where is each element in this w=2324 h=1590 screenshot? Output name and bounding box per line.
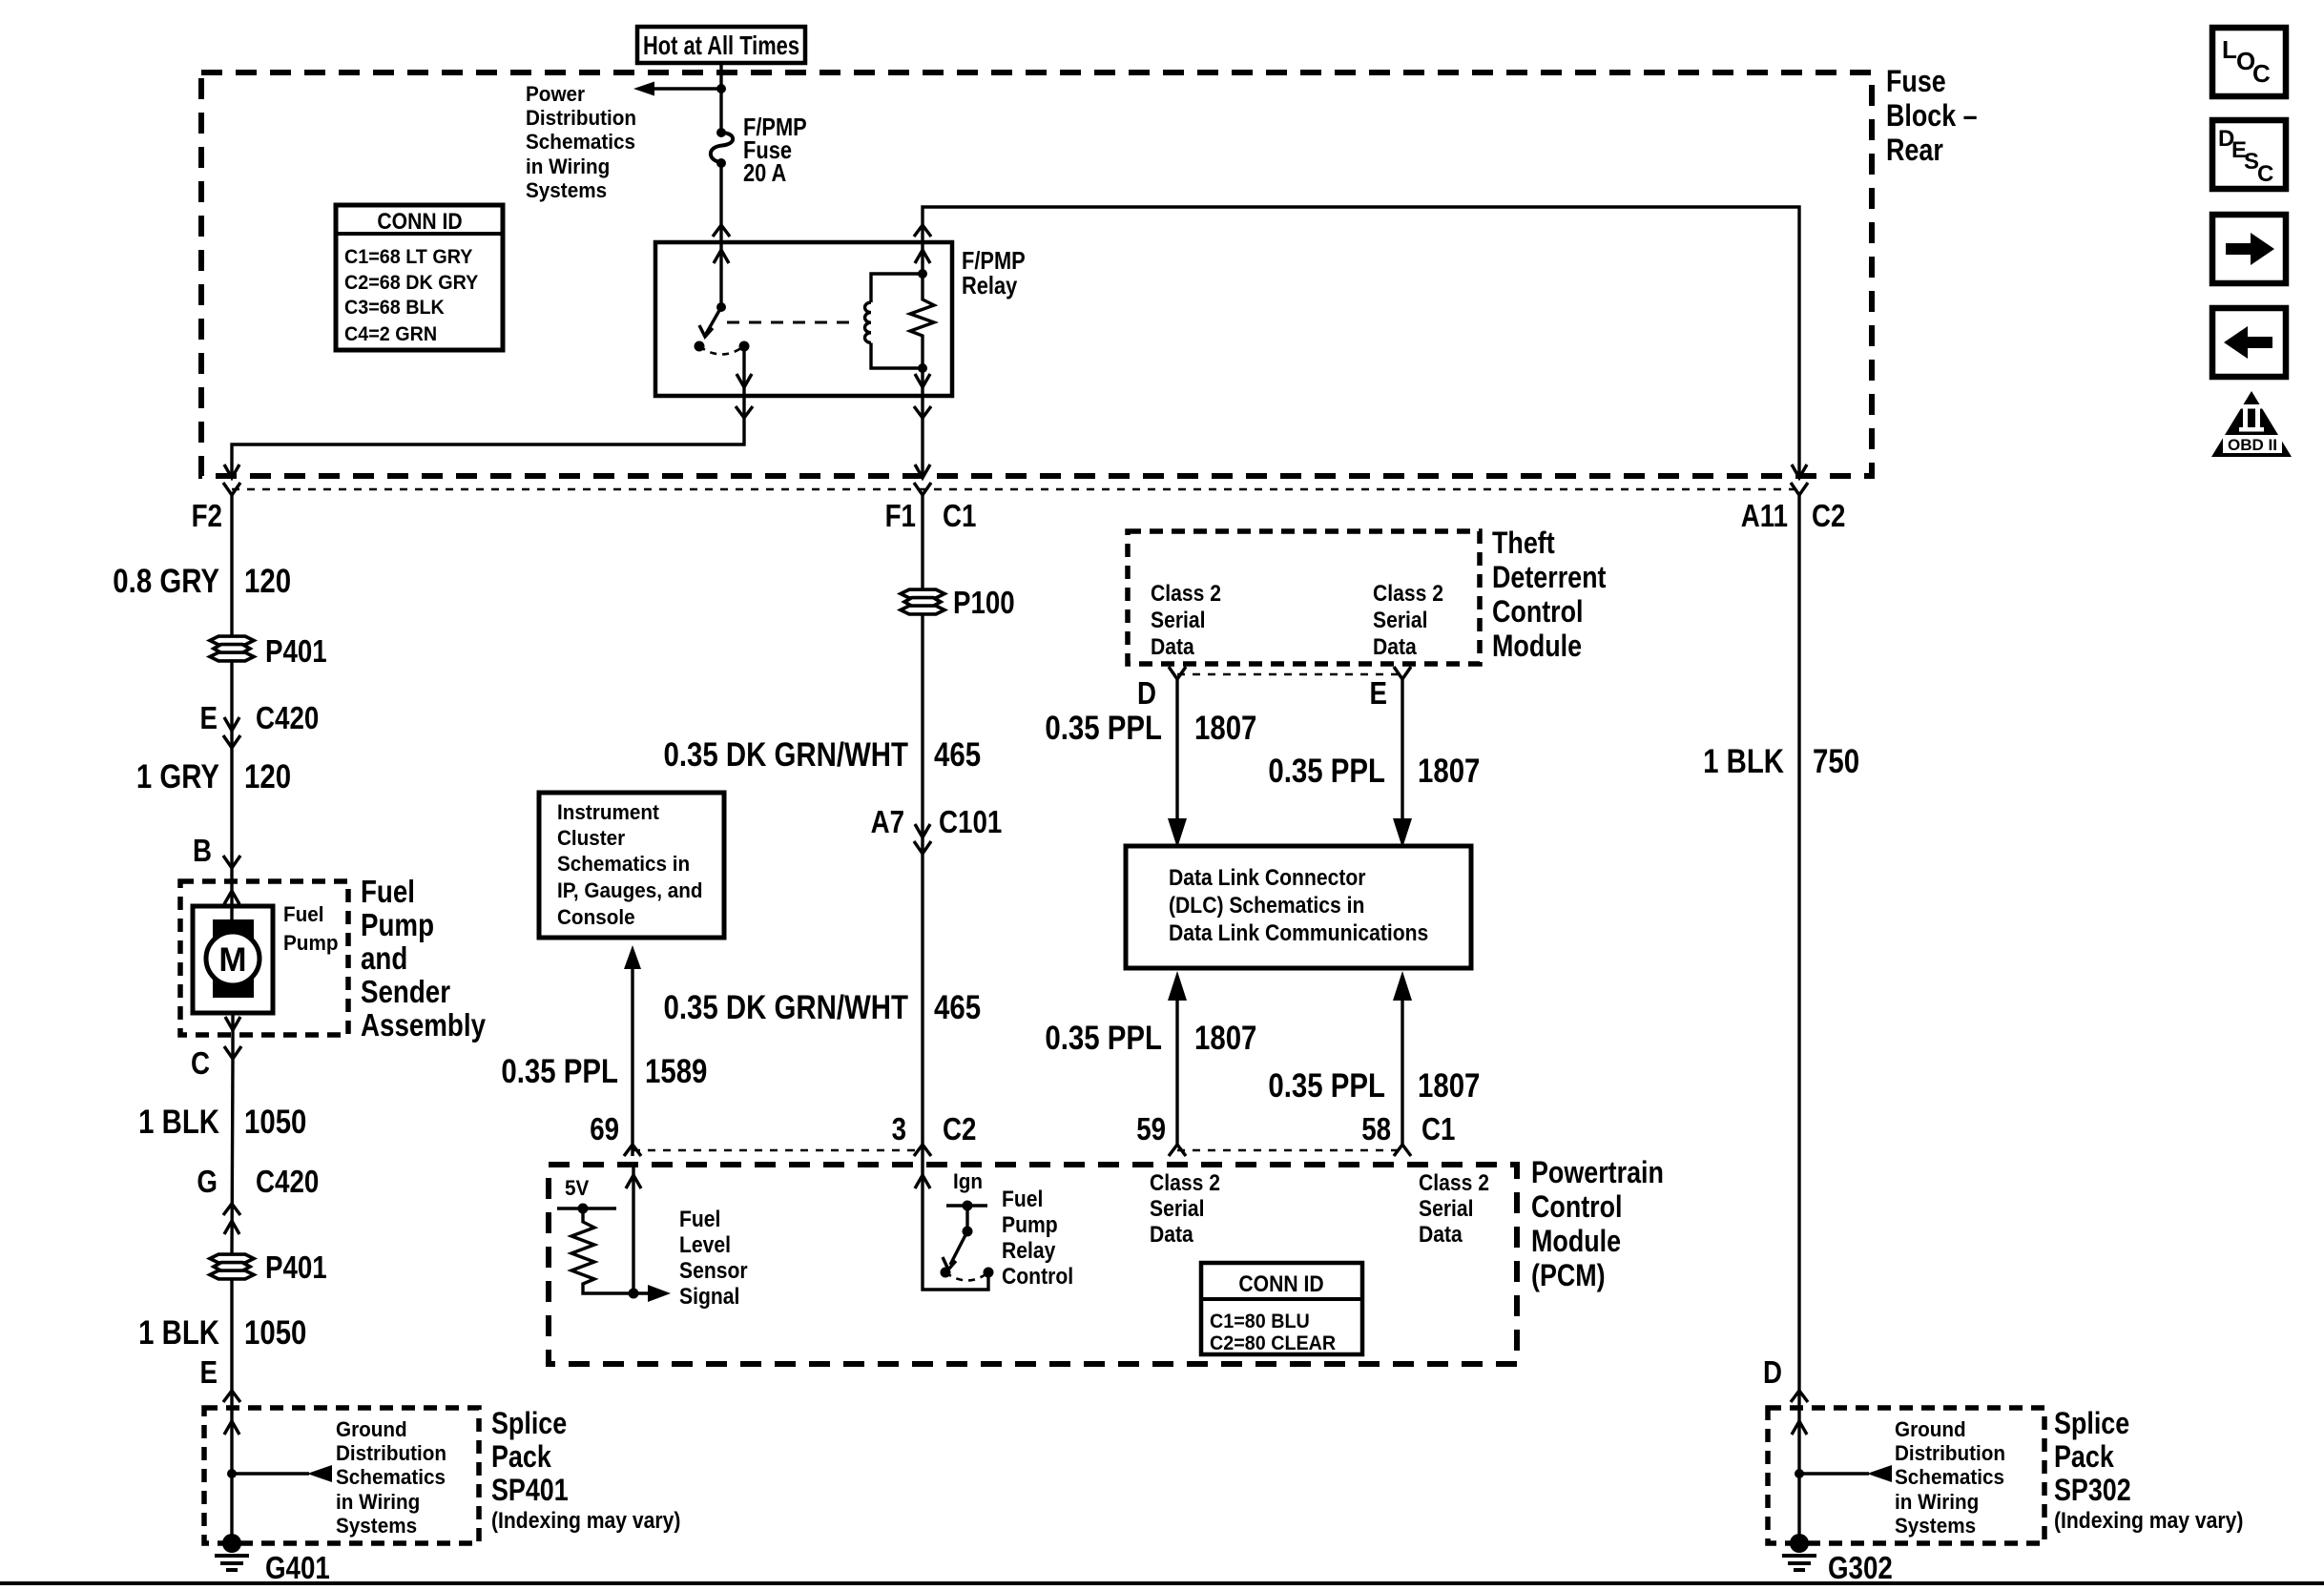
wire A11 to SP302	[1797, 495, 1800, 1408]
svg-text:Ground: Ground	[336, 1417, 407, 1441]
relay switch blade	[699, 307, 721, 337]
svg-text:1807: 1807	[1194, 1020, 1256, 1057]
svg-text:C4=2 GRN: C4=2 GRN	[344, 323, 437, 345]
connector chevron pin 3 C2	[914, 1145, 931, 1156]
label Fuse Block - Rear	[1886, 64, 1978, 167]
svg-text:Schematics: Schematics	[336, 1465, 446, 1489]
svg-text:58: 58	[1361, 1111, 1391, 1146]
svg-text:750: 750	[1813, 743, 1859, 780]
svg-text:Fuel: Fuel	[361, 874, 415, 909]
svg-text:1589: 1589	[645, 1053, 707, 1090]
arrow up into DLC left	[1168, 971, 1187, 1001]
svg-text:P100: P100	[953, 585, 1015, 620]
svg-text:Data Link Connector: Data Link Connector	[1169, 865, 1366, 891]
arrow up into instrument cluster	[624, 945, 641, 969]
svg-text:Sender: Sender	[361, 974, 450, 1009]
svg-text:C1=80 BLU: C1=80 BLU	[1210, 1311, 1310, 1332]
svg-text:C420: C420	[256, 700, 319, 735]
wire pin D to DLC	[1175, 679, 1178, 820]
fuel pump exit arrow down	[225, 1017, 240, 1030]
svg-text:(DLC) Schematics in: (DLC) Schematics in	[1169, 893, 1364, 919]
PCM ign feed	[946, 1169, 987, 1237]
connector chevron pin 69	[624, 1145, 641, 1156]
label Class 2 Serial Data PCM pin 58	[1419, 1170, 1489, 1248]
svg-text:465: 465	[934, 989, 981, 1026]
pin 3 arrow up inside PCM	[915, 1175, 930, 1188]
svg-text:1 BLK: 1 BLK	[138, 1314, 219, 1352]
arrow down at fuse block exit F2	[224, 465, 239, 478]
svg-text:Class 2: Class 2	[1373, 581, 1443, 607]
svg-text:1807: 1807	[1418, 1067, 1480, 1105]
relay switch dashed arc	[699, 346, 744, 355]
svg-text:0.35 PPL: 0.35 PPL	[1268, 1067, 1385, 1105]
ground G401	[215, 1534, 249, 1570]
svg-text:1050: 1050	[244, 1314, 306, 1352]
connector chevron E splice	[223, 1391, 240, 1402]
connector chevron pin D	[1169, 667, 1186, 679]
svg-text:Data: Data	[1419, 1222, 1463, 1248]
svg-text:A11: A11	[1741, 498, 1788, 533]
PCM relay control switch blade	[943, 1231, 967, 1270]
svg-text:Data: Data	[1151, 634, 1194, 660]
icon forward arrow	[2212, 215, 2286, 283]
PCM dashed box	[549, 1165, 1517, 1364]
PCM switch contact right	[984, 1268, 994, 1278]
wire P401 to splice pack	[230, 1280, 233, 1408]
svg-text:C: C	[191, 1045, 210, 1081]
svg-text:Level: Level	[679, 1232, 731, 1258]
svg-text:Distribution: Distribution	[336, 1441, 446, 1465]
node SP401 splice junction	[227, 1469, 237, 1478]
svg-text:120: 120	[244, 758, 291, 795]
node relay coil top junction	[918, 269, 927, 279]
connector chevron F2	[223, 483, 240, 495]
PCM switch dashed arc	[945, 1272, 988, 1281]
PCM switch contact left	[941, 1268, 951, 1278]
svg-text:Schematics: Schematics	[1895, 1465, 2004, 1489]
arrow down into DLC left	[1168, 818, 1187, 848]
svg-text:Data Link Communications: Data Link Communications	[1169, 920, 1428, 946]
svg-text:69: 69	[590, 1111, 619, 1146]
wire P100 to A7 C101	[921, 615, 923, 854]
svg-text:5V: 5V	[565, 1176, 590, 1200]
label Ground Distribution Schematics in Wiring Systems SP401	[336, 1417, 446, 1538]
node power feed junction	[716, 84, 726, 93]
fuel pump motor M1	[193, 906, 273, 1013]
svg-text:Module: Module	[1531, 1224, 1621, 1258]
svg-text:Fuse: Fuse	[1886, 64, 1946, 98]
svg-text:1 BLK: 1 BLK	[138, 1104, 219, 1141]
svg-text:G302: G302	[1828, 1550, 1893, 1585]
svg-text:120: 120	[244, 563, 291, 600]
connector chevron A11 C2	[1791, 483, 1808, 495]
svg-text:Systems: Systems	[1895, 1514, 1976, 1538]
wire relay pin 86 up and across to A11	[923, 207, 1799, 476]
svg-text:C2=80 CLEAR: C2=80 CLEAR	[1210, 1332, 1336, 1354]
svg-text:Schematics in: Schematics in	[557, 852, 690, 876]
svg-text:C420: C420	[256, 1164, 319, 1199]
connector chevron pin 58	[1394, 1145, 1411, 1156]
svg-text:in Wiring: in Wiring	[526, 155, 610, 178]
relay F/PMP Relay box	[655, 242, 952, 396]
wire relay pin 87 down to F1	[921, 368, 923, 476]
connector chevron C	[224, 1046, 241, 1059]
wire pin 59 to DLC	[1175, 1000, 1178, 1145]
svg-text:Class 2: Class 2	[1419, 1170, 1489, 1196]
wire pin 58 to DLC	[1401, 1000, 1403, 1145]
connector chevron F1 C1	[914, 483, 931, 495]
svg-text:Fuel: Fuel	[283, 902, 324, 926]
svg-text:F1: F1	[885, 498, 916, 533]
svg-text:Serial: Serial	[1419, 1196, 1474, 1222]
wire fuse to relay pin	[719, 163, 722, 307]
connector C101 pin A7 arrow	[915, 824, 930, 837]
label Splice Pack SP302	[2054, 1406, 2243, 1534]
svg-text:1807: 1807	[1418, 753, 1480, 790]
arrow down at fuse block exit F1	[915, 465, 930, 478]
svg-text:Rear: Rear	[1886, 133, 1943, 167]
svg-text:0.35 DK GRN/WHT: 0.35 DK GRN/WHT	[664, 736, 909, 774]
svg-text:E: E	[200, 1354, 218, 1390]
svg-text:Instrument: Instrument	[557, 800, 660, 824]
label Class 2 Serial Data theft pin E	[1373, 581, 1443, 660]
svg-text:Control: Control	[1002, 1264, 1073, 1290]
svg-text:B: B	[193, 833, 212, 868]
CONN ID table PCM	[1201, 1263, 1362, 1354]
icon OBD II	[2211, 391, 2292, 457]
svg-text:Power: Power	[526, 82, 586, 106]
node relay coil bottom junction	[918, 363, 927, 373]
arrow up into DLC right	[1393, 971, 1412, 1001]
svg-text:C3=68 BLK: C3=68 BLK	[344, 297, 445, 319]
label Class 2 Serial Data theft pin D	[1151, 581, 1221, 660]
svg-text:Distribution: Distribution	[1895, 1441, 2005, 1465]
PCM 5V supply	[557, 1176, 616, 1214]
instrument cluster reference box	[539, 793, 724, 938]
connector chevron relay pin 87	[914, 406, 931, 418]
SP302 reference arrow	[1799, 1465, 1892, 1482]
ground G302	[1782, 1534, 1816, 1570]
svg-text:Data: Data	[1373, 634, 1417, 660]
wire into SP401 ground	[230, 1408, 233, 1543]
svg-text:Systems: Systems	[526, 178, 607, 202]
svg-text:0.35 PPL: 0.35 PPL	[1045, 1020, 1162, 1057]
connector C420 pin E chevron	[223, 735, 240, 748]
ground distribution SP302 dashed box	[1768, 1408, 2044, 1543]
wire pin E to DLC	[1401, 679, 1403, 820]
svg-text:Class 2: Class 2	[1151, 581, 1221, 607]
svg-text:C1: C1	[943, 498, 976, 533]
svg-text:Pump: Pump	[1002, 1212, 1058, 1238]
label Ground Distribution Schematics in Wiring Systems SP302	[1895, 1417, 2005, 1538]
pin 69 arrow up inside PCM	[626, 1175, 641, 1188]
svg-text:C1=68 LT GRY: C1=68 LT GRY	[344, 246, 472, 268]
fuel pump and sender assembly dashed box	[180, 881, 348, 1035]
relay switch pivot	[716, 302, 726, 312]
data link connector reference box	[1126, 846, 1471, 968]
svg-text:Serial: Serial	[1151, 608, 1206, 633]
relay switch contact output	[739, 341, 750, 352]
svg-text:G401: G401	[265, 1550, 330, 1585]
icon DESC	[2212, 120, 2286, 189]
connector C101 pin A7 chevron	[914, 841, 931, 854]
connector dashed line pins 59-58	[1177, 1149, 1402, 1152]
svg-text:Pack: Pack	[491, 1439, 551, 1474]
label F/PMP Relay	[962, 246, 1026, 299]
icon back arrow	[2212, 308, 2286, 377]
svg-text:3: 3	[892, 1111, 906, 1146]
svg-text:C: C	[2252, 59, 2271, 88]
connector chevron D splice	[1791, 1391, 1808, 1402]
connector C420 pin G chevron	[223, 1204, 240, 1215]
svg-text:C: C	[2257, 161, 2273, 187]
arrow down into DLC right	[1393, 818, 1412, 848]
relay pin 30 arrow up	[714, 250, 729, 263]
wire C to P401 lower	[232, 1059, 233, 1255]
connector chevron relay switch output	[736, 406, 753, 418]
svg-text:(Indexing may vary): (Indexing may vary)	[2054, 1508, 2243, 1534]
svg-text:A7: A7	[871, 804, 904, 839]
wire hot feed down from Hot at All Times	[719, 63, 722, 134]
svg-text:and: and	[361, 940, 407, 976]
node SP302 splice junction	[1795, 1469, 1804, 1478]
fuel pump entry arrow up	[224, 891, 239, 904]
svg-text:Signal: Signal	[679, 1284, 739, 1310]
relay coil	[865, 274, 923, 368]
CONN ID table fuse block	[336, 205, 503, 350]
svg-text:D: D	[1137, 675, 1156, 711]
svg-text:Module: Module	[1492, 629, 1582, 663]
svg-text:Theft: Theft	[1492, 526, 1555, 560]
label Fuel Pump	[283, 902, 339, 955]
connector chevron pin 59	[1169, 1145, 1186, 1156]
wire B into fuel pump motor	[230, 868, 233, 919]
relay switch contact open	[695, 341, 705, 352]
relay resistor	[910, 274, 934, 368]
svg-text:1 GRY: 1 GRY	[136, 758, 219, 795]
wire pin 69 inside PCM	[632, 1165, 634, 1293]
label Splice Pack SP401	[491, 1406, 680, 1534]
fuel level signal arrow right	[648, 1285, 671, 1302]
svg-text:E: E	[1370, 675, 1388, 711]
svg-text:Splice: Splice	[2054, 1406, 2129, 1440]
svg-text:Class 2: Class 2	[1150, 1170, 1220, 1196]
svg-text:1807: 1807	[1194, 710, 1256, 747]
svg-text:CONN ID: CONN ID	[377, 209, 462, 235]
wire relay switch output to F2	[232, 346, 744, 476]
connector P401 lower	[210, 1254, 254, 1279]
svg-text:Serial: Serial	[1373, 608, 1428, 633]
relay pin 87 arrow down	[915, 374, 930, 387]
icon LOC	[2212, 28, 2286, 96]
svg-text:Relay: Relay	[1002, 1238, 1056, 1264]
svg-text:Console: Console	[557, 905, 635, 929]
svg-text:20 A: 20 A	[743, 158, 786, 187]
svg-text:Hot at All Times: Hot at All Times	[643, 31, 799, 60]
PCM pull-up resistor	[571, 1208, 656, 1293]
svg-text:(Indexing may vary): (Indexing may vary)	[491, 1508, 680, 1534]
svg-text:59: 59	[1136, 1111, 1166, 1146]
arrow down at fuse block exit A11	[1792, 465, 1807, 478]
Hot at All Times box	[637, 27, 805, 63]
svg-text:Relay: Relay	[962, 271, 1018, 299]
svg-text:L: L	[2222, 35, 2237, 64]
svg-text:P401: P401	[265, 1249, 327, 1285]
connector chevron pin E	[1394, 667, 1411, 679]
wire relay control to pin 3	[923, 1165, 988, 1290]
svg-text:C1: C1	[1421, 1111, 1455, 1146]
label Class 2 Serial Data PCM pin 59	[1150, 1170, 1220, 1248]
wire F2 to P401	[230, 495, 233, 636]
svg-text:Cluster: Cluster	[557, 826, 626, 850]
svg-text:C2: C2	[1812, 498, 1845, 533]
SP302 entry arrow up	[1792, 1421, 1807, 1435]
svg-text:Control: Control	[1492, 594, 1584, 629]
svg-text:Fuel: Fuel	[679, 1207, 720, 1232]
svg-text:Deterrent: Deterrent	[1492, 560, 1607, 594]
SP401 entry arrow up	[224, 1421, 239, 1435]
svg-text:Ign: Ign	[953, 1169, 983, 1193]
svg-text:0.35 PPL: 0.35 PPL	[1268, 753, 1385, 790]
label F/PMP Fuse 20 A	[743, 113, 807, 187]
svg-text:in Wiring: in Wiring	[336, 1490, 420, 1514]
connector chevron relay pin 30	[713, 225, 730, 237]
svg-text:E: E	[200, 700, 218, 735]
svg-text:OBD II: OBD II	[2228, 436, 2277, 454]
fuse F/PMP Fuse 20 A	[711, 128, 733, 168]
wire P401 to fuel pump B	[230, 662, 233, 868]
label Theft Deterrent Control Module	[1492, 526, 1607, 663]
relay switch output arrow down	[737, 374, 752, 387]
connector C420 pin E arrow	[224, 717, 239, 731]
relay control dashed link	[727, 321, 859, 324]
SP401 reference arrow	[232, 1465, 332, 1482]
svg-text:Pack: Pack	[2054, 1439, 2114, 1474]
svg-text:C2: C2	[943, 1111, 976, 1146]
connector dashed line (F2 / F1 C1 / A11 C2)	[232, 488, 1799, 491]
svg-text:Fuel: Fuel	[1002, 1187, 1043, 1212]
connector chevron B	[223, 856, 240, 868]
svg-text:C101: C101	[939, 804, 1002, 839]
svg-text:C2=68 DK GRY: C2=68 DK GRY	[344, 272, 478, 294]
connector dashed line pins D-E	[1177, 673, 1402, 676]
connector C420 pin G arrow	[224, 1221, 239, 1234]
theft deterrent control module dashed box	[1128, 531, 1480, 664]
wire motor to C	[231, 1013, 234, 1059]
svg-text:Block –: Block –	[1886, 98, 1978, 133]
svg-text:1 BLK: 1 BLK	[1703, 743, 1784, 780]
svg-text:Powertrain: Powertrain	[1531, 1155, 1664, 1189]
wire C101 to PCM pin 3	[921, 854, 923, 1165]
connector chevron relay pin 86	[914, 225, 931, 237]
label Powertrain Control Module (PCM)	[1531, 1155, 1664, 1292]
connector P401 upper	[210, 636, 254, 661]
svg-text:IP, Gauges, and: IP, Gauges, and	[557, 878, 703, 902]
svg-text:0.35 DK GRN/WHT: 0.35 DK GRN/WHT	[664, 989, 909, 1026]
svg-text:Distribution: Distribution	[526, 106, 636, 130]
svg-text:F2: F2	[192, 498, 222, 533]
svg-text:Serial: Serial	[1150, 1196, 1205, 1222]
svg-text:Pump: Pump	[283, 931, 339, 955]
svg-text:465: 465	[934, 736, 981, 774]
connector dashed line pins 69-3	[633, 1149, 923, 1152]
svg-text:Ground: Ground	[1895, 1417, 1966, 1441]
svg-text:M: M	[218, 941, 246, 979]
svg-text:SP302: SP302	[2054, 1473, 2131, 1507]
svg-text:Assembly: Assembly	[361, 1007, 487, 1043]
wire F1 to P100	[921, 495, 923, 593]
svg-text:in Wiring: in Wiring	[1895, 1490, 1979, 1514]
svg-text:CONN ID: CONN ID	[1238, 1271, 1323, 1297]
wire pin 69 to instrument cluster	[631, 967, 633, 1156]
relay pin 86 arrow up	[915, 250, 930, 263]
label Power Distribution Schematics in Wiring Systems	[526, 82, 636, 202]
ground distribution SP401 dashed box	[204, 1408, 479, 1543]
svg-text:D: D	[1763, 1354, 1782, 1390]
label Fuel Level Sensor Signal	[679, 1207, 748, 1310]
svg-text:Control: Control	[1531, 1189, 1623, 1224]
fuse block - rear dashed box	[201, 72, 1872, 476]
svg-text:Data: Data	[1150, 1222, 1193, 1248]
svg-text:P401: P401	[265, 633, 327, 669]
svg-text:Pump: Pump	[361, 907, 434, 942]
svg-text:Sensor: Sensor	[679, 1258, 748, 1284]
node fuel level signal junction	[629, 1289, 639, 1299]
svg-text:0.35 PPL: 0.35 PPL	[501, 1053, 618, 1090]
svg-text:Systems: Systems	[336, 1514, 417, 1538]
svg-text:Splice: Splice	[491, 1406, 567, 1440]
svg-text:(PCM): (PCM)	[1531, 1258, 1606, 1292]
power distribution reference arrow	[633, 82, 721, 96]
label Fuel Pump Relay Control	[1002, 1187, 1073, 1290]
svg-text:Schematics: Schematics	[526, 130, 635, 154]
svg-text:G: G	[197, 1164, 218, 1199]
svg-text:0.35 PPL: 0.35 PPL	[1045, 710, 1162, 747]
label Fuel Pump and Sender Assembly	[361, 874, 487, 1043]
wire into SP302 ground	[1797, 1408, 1800, 1543]
svg-text:1050: 1050	[244, 1104, 306, 1141]
connector P100	[901, 589, 944, 614]
svg-text:0.8 GRY: 0.8 GRY	[113, 563, 219, 600]
svg-text:SP401: SP401	[491, 1473, 569, 1507]
